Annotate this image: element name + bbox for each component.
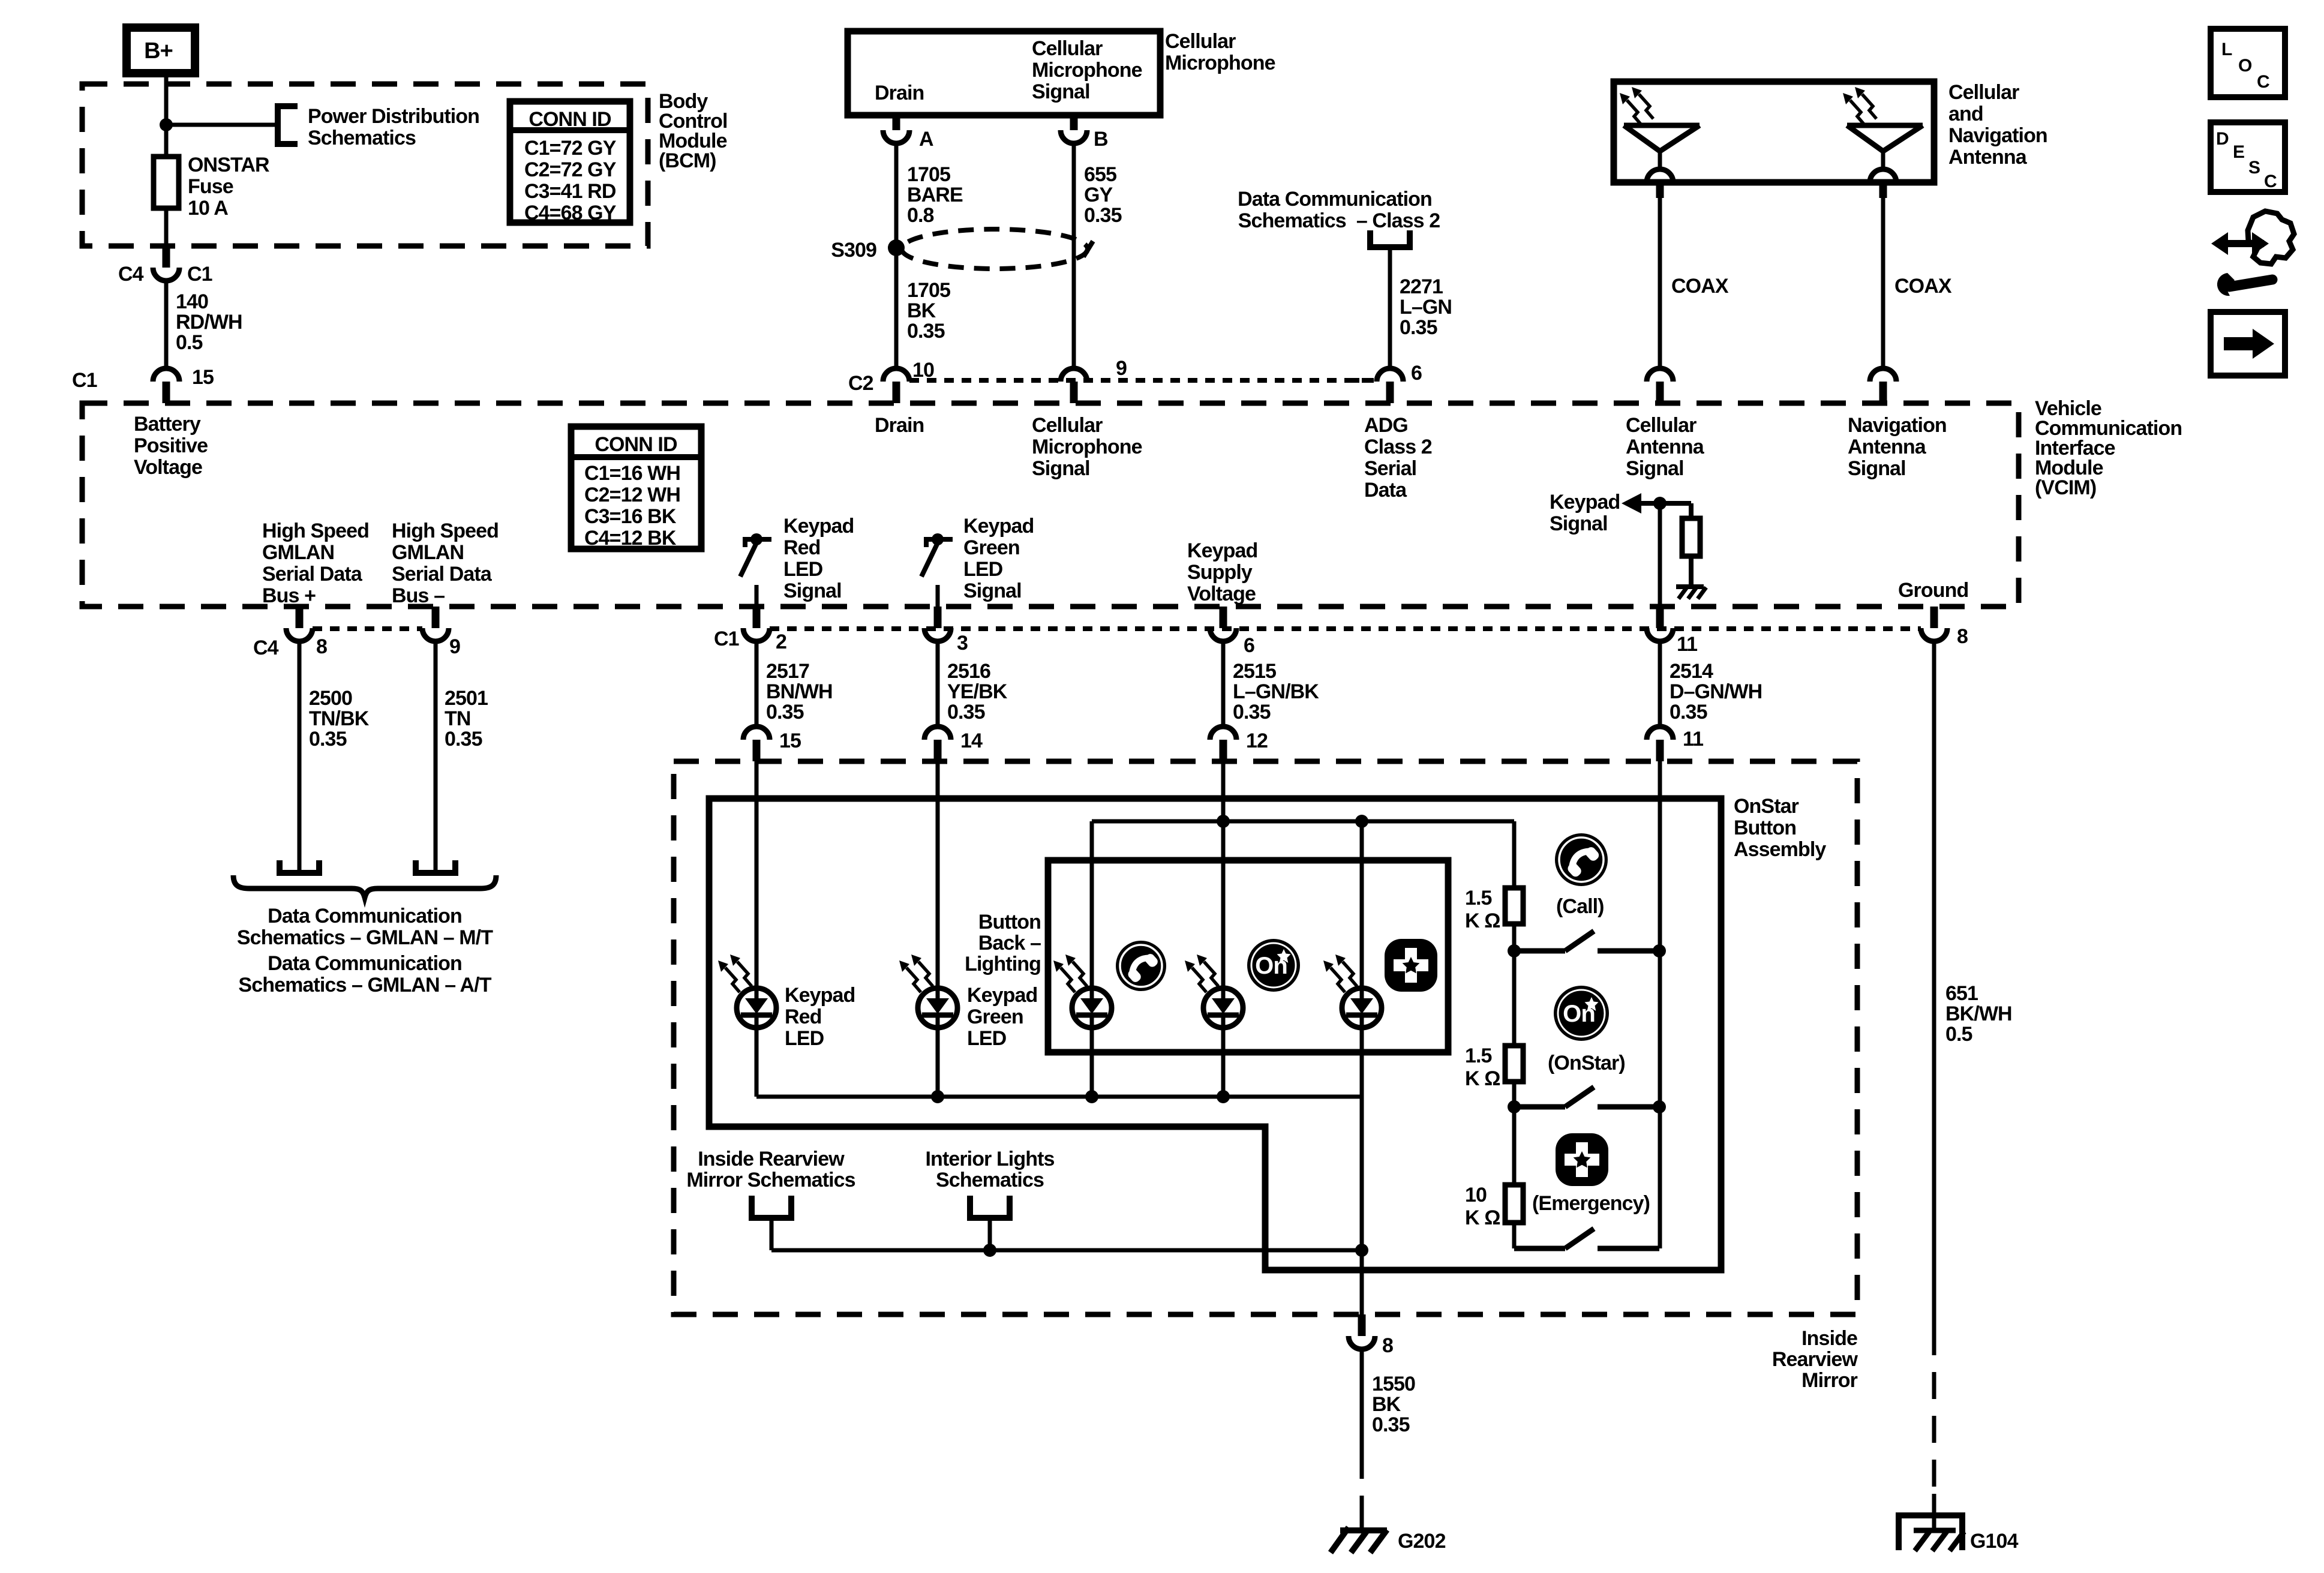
B+ power symbol box bbox=[127, 28, 195, 73]
svg-text:Navigation: Navigation bbox=[1948, 124, 2047, 147]
svg-text:LED: LED bbox=[967, 1027, 1007, 1050]
svg-text:Mirror Schematics: Mirror Schematics bbox=[686, 1169, 855, 1191]
keypad signal column wire bbox=[1658, 761, 1662, 1248]
wire navigation COAX bbox=[1881, 198, 1885, 368]
svg-text:(Emergency): (Emergency) bbox=[1532, 1192, 1650, 1215]
svg-text:Cellular: Cellular bbox=[1626, 414, 1697, 437]
svg-text:Cellular: Cellular bbox=[1032, 414, 1103, 437]
wire pin14 to keypad green LED bbox=[936, 761, 940, 988]
svg-text:CONN ID: CONN ID bbox=[594, 433, 677, 456]
node backlight junction right bbox=[1355, 815, 1368, 828]
svg-text:Inside: Inside bbox=[1801, 1327, 1857, 1350]
resistor 1.5K onstar bbox=[1505, 1046, 1523, 1082]
wire 140 RD/WH 0.5 bbox=[164, 281, 169, 368]
svg-text:0.8: 0.8 bbox=[907, 204, 934, 227]
cellular antenna pin at box bbox=[1647, 169, 1673, 182]
svg-text:K Ω: K Ω bbox=[1465, 1067, 1500, 1090]
svg-text:Ground: Ground bbox=[1898, 579, 1968, 602]
svg-text:D: D bbox=[2216, 129, 2229, 149]
LED backlight 1 bbox=[1072, 988, 1112, 1028]
legend LOC box bbox=[2211, 29, 2285, 97]
node keypad signal junction bbox=[1653, 497, 1667, 510]
svg-text:Keypad: Keypad bbox=[967, 984, 1037, 1007]
node LED bus backlight2 bbox=[1217, 1090, 1230, 1103]
svg-text:2517: 2517 bbox=[766, 660, 809, 683]
wire 2515 L-GN/BK 0.35 bbox=[1221, 641, 1226, 727]
LED backlight 2 bbox=[1203, 988, 1243, 1028]
svg-text:Green: Green bbox=[967, 1005, 1023, 1028]
svg-text:Red: Red bbox=[783, 536, 821, 559]
wire 2517 BN/WH 0.35 bbox=[755, 641, 759, 727]
svg-text:C2=72 GY: C2=72 GY bbox=[524, 158, 617, 181]
node power junction bbox=[160, 118, 173, 131]
svg-text:Schematics: Schematics bbox=[936, 1169, 1044, 1191]
wire cellular COAX bbox=[1658, 198, 1662, 368]
svg-text:BK/WH: BK/WH bbox=[1945, 1002, 2012, 1025]
svg-text:Button: Button bbox=[1734, 816, 1796, 839]
svg-text:2500: 2500 bbox=[309, 687, 352, 710]
svg-text:C1: C1 bbox=[72, 369, 97, 392]
svg-text:Serial Data: Serial Data bbox=[262, 563, 363, 586]
svg-text:COAX: COAX bbox=[1894, 275, 1952, 298]
wire 1705 BK drain lower bbox=[894, 248, 899, 368]
svg-text:E: E bbox=[2233, 142, 2244, 162]
wire backlight LED2 feed bbox=[1221, 821, 1226, 988]
svg-text:High Speed: High Speed bbox=[262, 520, 369, 542]
svg-text:12: 12 bbox=[1246, 730, 1268, 752]
ground G104 bbox=[1899, 1515, 1962, 1550]
svg-text:Keypad: Keypad bbox=[783, 515, 854, 538]
dotted line left of pin 6 bbox=[1350, 378, 1374, 383]
CONN ID table BCM bbox=[510, 101, 630, 223]
node LED bus green bbox=[931, 1090, 944, 1103]
connector C2 pin 10 bbox=[893, 382, 900, 403]
connector pin 15 (button assembly) bbox=[753, 740, 761, 761]
svg-text:Navigation: Navigation bbox=[1848, 414, 1947, 437]
svg-text:LED: LED bbox=[785, 1027, 824, 1050]
cellular microphone box bbox=[848, 31, 1160, 115]
svg-text:High Speed: High Speed bbox=[392, 520, 499, 542]
navigation antenna symbol bbox=[1847, 123, 1923, 128]
svg-text:0.35: 0.35 bbox=[766, 701, 804, 724]
wire backlight LED1 feed bbox=[1090, 821, 1094, 988]
backlight supply wire bbox=[1092, 819, 1514, 824]
wire 2514 D-GN/WH 0.35 bbox=[1658, 641, 1662, 727]
connector C1 pin 8 ground (VCIM bottom) bbox=[1930, 607, 1938, 628]
connector C1 pin 15 bbox=[163, 382, 170, 403]
fuse ONSTAR 10A bbox=[154, 157, 179, 208]
svg-text:Voltage: Voltage bbox=[134, 456, 202, 479]
wire fuse to connector C4/C1 bbox=[164, 208, 169, 246]
svg-text:8: 8 bbox=[316, 635, 327, 658]
wire chain row2 to resistor3 bbox=[1512, 1107, 1517, 1185]
LED keypad green bbox=[918, 988, 957, 1028]
svg-text:B+: B+ bbox=[144, 38, 173, 64]
svg-text:C4=68 GY: C4=68 GY bbox=[524, 202, 617, 224]
svg-text:Cellular: Cellular bbox=[1032, 37, 1103, 60]
svg-text:Bus +: Bus + bbox=[262, 584, 316, 607]
wire 655 GY mic signal bbox=[1072, 143, 1076, 368]
node LED bus backlight1 bbox=[1085, 1090, 1098, 1103]
phone icon backlight bbox=[1116, 941, 1166, 991]
node schematics wire junction bbox=[1355, 1244, 1368, 1257]
svg-text:C2=12 WH: C2=12 WH bbox=[584, 484, 680, 506]
svg-text:Antenna: Antenna bbox=[1848, 436, 1927, 458]
wire backlight LED2 to bus bbox=[1221, 1028, 1226, 1097]
svg-text:Battery: Battery bbox=[134, 413, 201, 436]
svg-text:0.5: 0.5 bbox=[176, 331, 203, 354]
svg-text:9: 9 bbox=[449, 635, 460, 658]
svg-text:Antenna: Antenna bbox=[1948, 146, 2028, 169]
wire 2500 TN/BK 0.35 bbox=[298, 641, 302, 871]
ground G202 bbox=[1340, 1527, 1387, 1533]
svg-text:655: 655 bbox=[1084, 163, 1116, 186]
svg-text:Voltage: Voltage bbox=[1187, 583, 1256, 605]
svg-text:Data Communication: Data Communication bbox=[1238, 188, 1432, 211]
svg-text:C4: C4 bbox=[253, 637, 279, 659]
svg-text:Rearview: Rearview bbox=[1772, 1348, 1858, 1371]
svg-text:C4=12 BK: C4=12 BK bbox=[584, 527, 677, 550]
svg-text:TN: TN bbox=[445, 707, 471, 730]
svg-text:Button: Button bbox=[978, 911, 1041, 933]
legend service icon bbox=[2211, 232, 2264, 255]
connector C1 pin 6 (VCIM bottom) bbox=[1220, 607, 1227, 628]
interior lights schematics cup bbox=[970, 1196, 1010, 1218]
svg-text:L–GN: L–GN bbox=[1400, 296, 1452, 319]
wire junction to power distribution bracket bbox=[166, 123, 278, 127]
svg-text:C1: C1 bbox=[187, 263, 212, 286]
svg-text:LED: LED bbox=[783, 558, 823, 581]
svg-text:S: S bbox=[2248, 158, 2260, 178]
svg-text:Power Distribution: Power Distribution bbox=[308, 105, 479, 128]
wire keypad green LED to bus bbox=[936, 1028, 940, 1097]
connector C2 pin 9 bbox=[1070, 382, 1078, 403]
svg-text:K Ω: K Ω bbox=[1465, 1206, 1500, 1229]
svg-text:GMLAN: GMLAN bbox=[392, 541, 464, 564]
svg-text:GY: GY bbox=[1084, 184, 1113, 206]
svg-text:11: 11 bbox=[1683, 728, 1703, 751]
connector pin 14 (button assembly) bbox=[934, 740, 942, 761]
svg-text:1.5: 1.5 bbox=[1465, 1044, 1492, 1067]
connector C4 pin 9 (VCIM bottom) bbox=[432, 607, 440, 628]
mic pin B bbox=[1070, 114, 1078, 130]
wire interior lights down bbox=[988, 1218, 992, 1250]
wire 1550 BK upper bbox=[1360, 1349, 1364, 1452]
svg-text:BARE: BARE bbox=[907, 184, 963, 206]
svg-text:Signal: Signal bbox=[1032, 457, 1090, 480]
emergency icon button bbox=[1556, 1133, 1608, 1186]
svg-text:B: B bbox=[1094, 128, 1108, 151]
svg-text:Antenna: Antenna bbox=[1626, 436, 1705, 458]
svg-text:C3=16 BK: C3=16 BK bbox=[584, 505, 677, 528]
svg-text:(Call): (Call) bbox=[1556, 895, 1604, 918]
svg-text:Signal: Signal bbox=[783, 580, 842, 602]
svg-text:6: 6 bbox=[1411, 362, 1422, 385]
svg-text:1550: 1550 bbox=[1372, 1373, 1415, 1395]
svg-text:Keypad: Keypad bbox=[963, 515, 1034, 538]
svg-text:BK: BK bbox=[907, 299, 936, 322]
wire 1550 BK to ground bbox=[1360, 1515, 1364, 1531]
keypad red LED driver symbol bbox=[743, 537, 771, 542]
keypad signal pull resistor bbox=[1689, 503, 1694, 518]
GMLAN cup left bbox=[280, 860, 319, 873]
svg-text:Red: Red bbox=[785, 1005, 822, 1028]
svg-text:140: 140 bbox=[176, 290, 208, 313]
svg-text:Signal: Signal bbox=[963, 580, 1022, 602]
svg-text:C1=16 WH: C1=16 WH bbox=[584, 462, 680, 485]
wire resistor chain top bbox=[1512, 821, 1517, 888]
resistor 1.5K call bbox=[1505, 888, 1523, 924]
wire 651 BK/WH to ground bbox=[1932, 1494, 1936, 1529]
wire backlight LED1 to bus bbox=[1090, 1028, 1094, 1097]
svg-text:Signal: Signal bbox=[1032, 80, 1090, 103]
svg-text:8: 8 bbox=[1957, 625, 1968, 648]
svg-text:8: 8 bbox=[1382, 1334, 1393, 1357]
svg-text:1705: 1705 bbox=[907, 163, 950, 186]
connector C1 pin 3 (VCIM bottom) bbox=[934, 607, 942, 628]
svg-text:YE/BK: YE/BK bbox=[947, 680, 1008, 703]
svg-text:Keypad: Keypad bbox=[1187, 539, 1257, 562]
connector pin 12 (button assembly) bbox=[1220, 740, 1227, 761]
svg-text:Drain: Drain bbox=[875, 82, 924, 104]
svg-text:0.35: 0.35 bbox=[1372, 1413, 1410, 1436]
wire B+ to fuse bbox=[164, 73, 169, 157]
svg-text:651: 651 bbox=[1945, 982, 1978, 1005]
svg-text:Signal: Signal bbox=[1550, 512, 1608, 535]
dotted connector line C2 bbox=[909, 378, 1377, 383]
connector C4 pin 8 (VCIM bottom) bbox=[296, 607, 304, 628]
svg-text:Microphone: Microphone bbox=[1165, 52, 1275, 74]
svg-text:0.35: 0.35 bbox=[1233, 701, 1271, 724]
svg-text:C4: C4 bbox=[118, 263, 144, 286]
svg-text:2515: 2515 bbox=[1233, 660, 1276, 683]
svg-text:K Ω: K Ω bbox=[1465, 909, 1500, 932]
OnStar button assembly dashed box bbox=[674, 761, 1857, 1314]
switch call bbox=[1508, 944, 1521, 957]
svg-text:Serial: Serial bbox=[1364, 457, 1416, 480]
svg-text:LED: LED bbox=[963, 558, 1003, 581]
svg-text:Schematics: Schematics bbox=[308, 127, 416, 149]
navigation antenna pin at box bbox=[1870, 169, 1896, 182]
svg-text:C2: C2 bbox=[848, 372, 873, 395]
svg-text:and: and bbox=[1948, 103, 1983, 125]
dotted connector line C4 bottom bbox=[313, 626, 422, 631]
connector pin 11 (button assembly) bbox=[1656, 740, 1664, 761]
wire chain row1 to resistor2 bbox=[1512, 951, 1517, 1046]
connector pin navigation antenna (VCIM top) bbox=[1879, 382, 1887, 403]
svg-text:Schematics – Class 2: Schematics – Class 2 bbox=[1238, 209, 1440, 232]
svg-text:0.35: 0.35 bbox=[445, 728, 482, 751]
LED backlight 3 bbox=[1342, 988, 1382, 1028]
wire 1550 BK dashed bbox=[1360, 1452, 1364, 1515]
svg-text:(OnStar): (OnStar) bbox=[1548, 1052, 1625, 1074]
svg-text:6: 6 bbox=[1244, 634, 1254, 657]
svg-text:C1: C1 bbox=[714, 628, 739, 650]
svg-text:A: A bbox=[919, 128, 933, 151]
svg-text:Supply: Supply bbox=[1187, 561, 1253, 584]
svg-text:Lighting: Lighting bbox=[965, 953, 1041, 975]
wire LED bus down to pin 8 bbox=[1360, 1097, 1364, 1314]
svg-text:ADG: ADG bbox=[1364, 414, 1408, 437]
node interior lights junction bbox=[983, 1244, 996, 1257]
power distribution schematics bracket bbox=[278, 106, 298, 144]
svg-text:3: 3 bbox=[957, 632, 968, 655]
svg-text:C: C bbox=[2264, 172, 2277, 191]
svg-text:11: 11 bbox=[1677, 633, 1697, 656]
svg-text:2516: 2516 bbox=[947, 660, 990, 683]
svg-text:L–GN/BK: L–GN/BK bbox=[1233, 680, 1319, 703]
svg-text:Schematics – GMLAN – A/T: Schematics – GMLAN – A/T bbox=[238, 974, 491, 996]
svg-text:2271: 2271 bbox=[1400, 275, 1443, 298]
svg-text:Bus –: Bus – bbox=[392, 584, 445, 607]
connector pin 8 (assembly bottom) bbox=[1358, 1314, 1366, 1336]
svg-text:C1=72 GY: C1=72 GY bbox=[524, 137, 617, 160]
svg-text:BN/WH: BN/WH bbox=[766, 680, 833, 703]
inside rearview mirror schematics cup bbox=[752, 1196, 791, 1218]
svg-text:G202: G202 bbox=[1398, 1530, 1446, 1553]
svg-text:GMLAN: GMLAN bbox=[262, 541, 334, 564]
svg-text:Mirror: Mirror bbox=[1801, 1369, 1858, 1392]
svg-text:Data Communication: Data Communication bbox=[268, 952, 462, 975]
connector C1 pin 2 (VCIM bottom) bbox=[753, 607, 761, 628]
svg-text:15: 15 bbox=[779, 730, 801, 752]
svg-text:Serial Data: Serial Data bbox=[392, 563, 493, 586]
svg-text:Cellular: Cellular bbox=[1165, 30, 1236, 53]
svg-text:10: 10 bbox=[1465, 1184, 1487, 1206]
svg-text:10 A: 10 A bbox=[188, 197, 228, 220]
svg-text:ONSTAR: ONSTAR bbox=[188, 154, 269, 176]
svg-text:15: 15 bbox=[192, 366, 214, 389]
LED return bus wire bbox=[756, 1095, 1362, 1099]
svg-text:Green: Green bbox=[963, 536, 1020, 559]
wire resistor3 to switch row3 bbox=[1512, 1223, 1517, 1248]
connector C4/C1 pin bbox=[163, 246, 170, 268]
splice S309 bbox=[888, 239, 905, 256]
svg-text:Cellular: Cellular bbox=[1948, 81, 2019, 104]
node supply junction bbox=[1217, 815, 1230, 828]
button assembly inner box bbox=[709, 798, 1721, 1270]
connector pin cellular antenna (VCIM top) bbox=[1656, 382, 1664, 403]
svg-text:Data Communication: Data Communication bbox=[268, 905, 462, 927]
wire mirror schematics down bbox=[770, 1218, 774, 1250]
switch onstar bbox=[1508, 1100, 1521, 1113]
svg-text:Back –: Back – bbox=[978, 932, 1041, 954]
svg-text:Drain: Drain bbox=[875, 414, 924, 437]
svg-text:Signal: Signal bbox=[1848, 457, 1906, 480]
svg-text:2514: 2514 bbox=[1670, 660, 1713, 683]
svg-text:RD/WH: RD/WH bbox=[176, 311, 242, 334]
switch emergency bbox=[1514, 1246, 1565, 1251]
svg-text:OnStar: OnStar bbox=[1734, 795, 1799, 818]
schematics return wire bbox=[771, 1248, 1362, 1253]
svg-text:0.35: 0.35 bbox=[1670, 701, 1707, 724]
wire backlight LED3 feed bbox=[1360, 821, 1364, 988]
svg-text:Signal: Signal bbox=[1626, 457, 1684, 480]
svg-text:D–GN/WH: D–GN/WH bbox=[1670, 680, 1762, 703]
OnStar logo icon button bbox=[1554, 986, 1609, 1041]
svg-text:C3=41 RD: C3=41 RD bbox=[524, 180, 616, 203]
svg-text:(BCM): (BCM) bbox=[659, 149, 716, 172]
button back-lighting box bbox=[1048, 860, 1448, 1052]
svg-text:0.35: 0.35 bbox=[1400, 316, 1437, 339]
cellular and navigation antenna box bbox=[1614, 82, 1934, 182]
wire 1705 BARE drain upper bbox=[894, 143, 899, 248]
wire 2501 TN 0.35 bbox=[434, 641, 438, 871]
svg-text:O: O bbox=[2238, 56, 2252, 76]
svg-text:0.5: 0.5 bbox=[1945, 1023, 1972, 1046]
wire pin15 to keypad red LED bbox=[755, 761, 759, 988]
svg-text:0.35: 0.35 bbox=[947, 701, 985, 724]
mic pin A bbox=[893, 114, 900, 130]
BCM dashed box bbox=[82, 84, 648, 246]
svg-text:1705: 1705 bbox=[907, 279, 950, 302]
svg-text:Fuse: Fuse bbox=[188, 175, 233, 198]
connector pin 6 (top) bbox=[1386, 382, 1394, 403]
svg-text:L: L bbox=[2221, 40, 2232, 59]
class 2 schematics cup bbox=[1370, 230, 1410, 247]
svg-text:Keypad: Keypad bbox=[1550, 491, 1620, 514]
svg-text:Schematics – GMLAN – M/T: Schematics – GMLAN – M/T bbox=[237, 926, 493, 949]
svg-text:(VCIM): (VCIM) bbox=[2035, 476, 2096, 499]
svg-text:Interior Lights: Interior Lights bbox=[925, 1148, 1054, 1170]
svg-text:0.35: 0.35 bbox=[1084, 204, 1122, 227]
svg-text:COAX: COAX bbox=[1671, 275, 1729, 298]
keypad green LED driver symbol bbox=[924, 537, 953, 542]
legend arrow box bbox=[2211, 312, 2285, 376]
svg-text:Data: Data bbox=[1364, 479, 1407, 502]
LED keypad red bbox=[737, 988, 776, 1028]
svg-text:Assembly: Assembly bbox=[1734, 838, 1826, 861]
svg-text:Inside Rearview: Inside Rearview bbox=[698, 1148, 845, 1170]
svg-text:TN/BK: TN/BK bbox=[309, 707, 370, 730]
CONN ID table VCIM bbox=[571, 427, 701, 549]
svg-text:14: 14 bbox=[960, 730, 983, 752]
wire resistor1 to switch row1 bbox=[1512, 924, 1517, 951]
wire keypad red LED to bus bbox=[755, 1028, 759, 1097]
svg-text:BK: BK bbox=[1372, 1393, 1401, 1416]
connector C1 pin 11 (VCIM bottom) bbox=[1656, 607, 1664, 628]
svg-text:S309: S309 bbox=[831, 239, 876, 262]
wire keypad supply pin12 down bbox=[1221, 761, 1226, 821]
wire keypad signal to pin 11 bbox=[1658, 503, 1662, 607]
brace data communication bbox=[233, 875, 496, 897]
ground symbol internal (VCIM) bbox=[1676, 584, 1704, 589]
emergency icon backlight bbox=[1385, 939, 1437, 992]
wire 651 BK/WH upper bbox=[1932, 641, 1936, 1328]
wire 2271 L-GN 0.35 bbox=[1388, 247, 1392, 368]
svg-text:0.35: 0.35 bbox=[907, 320, 945, 343]
svg-text:Keypad: Keypad bbox=[785, 984, 855, 1007]
GMLAN cup right bbox=[416, 860, 455, 873]
svg-text:Positive: Positive bbox=[134, 434, 208, 457]
wire backlight LED3 to bus bbox=[1360, 1028, 1364, 1097]
wire 2516 YE/BK 0.35 bbox=[936, 641, 940, 727]
svg-text:G104: G104 bbox=[1970, 1530, 2019, 1553]
svg-text:CONN ID: CONN ID bbox=[529, 108, 611, 131]
OnStar logo icon backlight bbox=[1247, 939, 1300, 992]
svg-text:1.5: 1.5 bbox=[1465, 887, 1492, 909]
keypad signal arrow bbox=[1622, 493, 1641, 514]
shield tick at mic wire bbox=[1083, 241, 1093, 257]
dotted connector line C1 bottom bbox=[770, 626, 1921, 631]
svg-text:0.35: 0.35 bbox=[309, 728, 347, 751]
resistor 10K emergency bbox=[1505, 1185, 1523, 1223]
shield dashed ellipse bbox=[902, 229, 1088, 269]
svg-text:Class 2: Class 2 bbox=[1364, 436, 1432, 458]
phone icon call button bbox=[1555, 833, 1608, 886]
svg-text:C: C bbox=[2257, 72, 2269, 92]
cellular antenna symbol bbox=[1624, 123, 1700, 128]
